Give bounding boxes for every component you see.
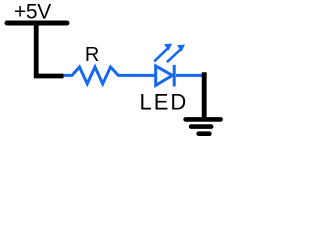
svg-text:R: R xyxy=(85,44,99,66)
svg-text:+5V: +5V xyxy=(14,1,51,24)
svg-text:LED: LED xyxy=(140,89,189,114)
